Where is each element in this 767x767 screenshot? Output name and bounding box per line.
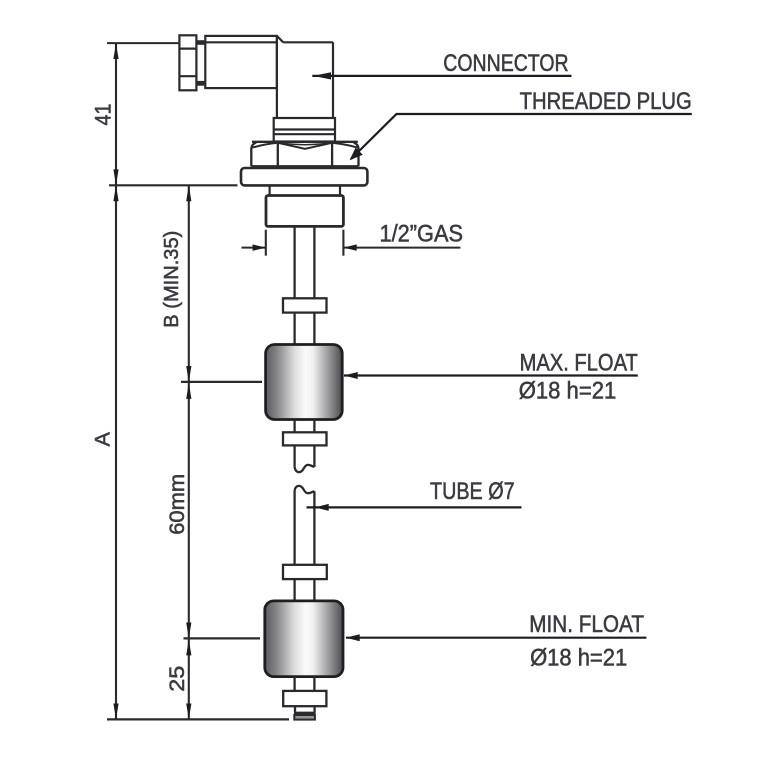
end cap (294, 715, 315, 720)
tube below min float (295, 677, 315, 691)
max float leader (344, 374, 638, 376)
flange reference line (109, 184, 238, 186)
dimension 25 line (188, 640, 190, 720)
svg-text:1/2”GAS: 1/2”GAS (380, 221, 464, 248)
svg-text:25: 25 (166, 666, 189, 692)
svg-text:CONNECTOR: CONNECTOR (443, 50, 568, 77)
dimension 41 line (115, 43, 117, 185)
max float (266, 345, 343, 420)
dimension A line (115, 185, 117, 719)
connector body (205, 36, 277, 88)
neck below flange (270, 185, 340, 195)
svg-text:Ø18 h=21: Ø18 h=21 (519, 377, 617, 404)
tube segment above min float (295, 579, 315, 601)
connector leader (312, 75, 571, 77)
stop collar 3 (283, 565, 327, 579)
top reference line (107, 42, 179, 44)
cable gland body (179, 35, 196, 90)
svg-text:MIN. FLOAT: MIN. FLOAT (529, 611, 644, 638)
svg-text:B (MIN.35): B (MIN.35) (161, 231, 183, 328)
1/2 GAS extension lines (266, 230, 344, 256)
elbow collar (274, 118, 335, 142)
svg-text:60mm: 60mm (166, 474, 189, 535)
tube segment (295, 313, 315, 345)
stop collar 1 (283, 298, 327, 312)
svg-text:41: 41 (90, 104, 115, 126)
tube leader (307, 506, 522, 508)
lower tube with break (295, 486, 315, 565)
min float level tick (184, 637, 261, 639)
min float leader (346, 637, 646, 639)
bottom reference line (107, 718, 289, 720)
plug flange washer (241, 168, 367, 185)
stop collar 2 (283, 432, 327, 445)
tube stub with break (295, 445, 315, 472)
1/2 GAS dimension line (242, 247, 266, 249)
svg-text:MAX. FLOAT: MAX. FLOAT (520, 350, 638, 377)
dimension B line (188, 185, 190, 382)
threaded nipple 1/2 gas (266, 196, 343, 227)
end collar (283, 691, 326, 706)
svg-text:Ø18 h=21: Ø18 h=21 (530, 645, 627, 672)
svg-text:THREADED PLUG: THREADED PLUG (520, 88, 692, 115)
threaded plug leader (351, 114, 692, 159)
connector body chamfer (277, 36, 283, 42)
svg-text:A: A (91, 431, 115, 446)
max float level tick (181, 381, 262, 383)
gland neck clamp bars (196, 40, 205, 86)
threaded plug hex nut (251, 142, 358, 167)
tube upper segment (295, 226, 315, 298)
connector elbow (277, 36, 333, 118)
dimension 60mm line (188, 383, 190, 638)
end nub (294, 706, 316, 713)
min float (265, 601, 343, 677)
svg-text:TUBE Ø7: TUBE Ø7 (430, 478, 515, 505)
tube below max float (295, 420, 315, 433)
